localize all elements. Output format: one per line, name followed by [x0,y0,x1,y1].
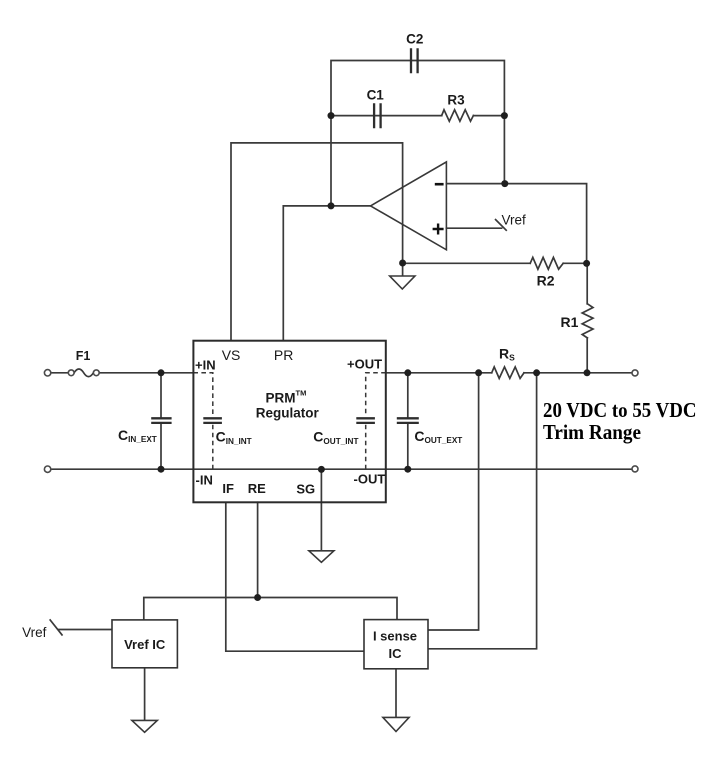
svg-text:R2: R2 [537,272,555,288]
svg-text:20 VDC to 55 VDC: 20 VDC to 55 VDC [543,398,697,422]
svg-text:Vref: Vref [22,625,47,640]
svg-text:Trim Range: Trim Range [543,420,641,444]
svg-text:Vref: Vref [502,213,527,228]
svg-text:Vref IC: Vref IC [124,637,166,652]
svg-text:-OUT: -OUT [354,472,386,487]
svg-text:+IN: +IN [195,358,216,373]
svg-text:R1: R1 [561,314,579,330]
svg-text:C1: C1 [367,88,385,103]
svg-text:C2: C2 [406,32,423,47]
svg-text:-IN: -IN [196,473,213,488]
svg-text:Regulator: Regulator [256,406,320,421]
svg-text:PR: PR [274,347,293,363]
svg-text:SG: SG [296,482,315,497]
svg-text:VS: VS [222,347,241,363]
svg-text:R3: R3 [447,93,465,108]
svg-text:IC: IC [389,646,403,661]
svg-text:F1: F1 [76,349,91,363]
svg-text:RE: RE [248,481,266,496]
svg-text:+OUT: +OUT [347,357,382,372]
svg-text:IF: IF [222,481,234,496]
svg-text:I sense: I sense [373,629,417,644]
